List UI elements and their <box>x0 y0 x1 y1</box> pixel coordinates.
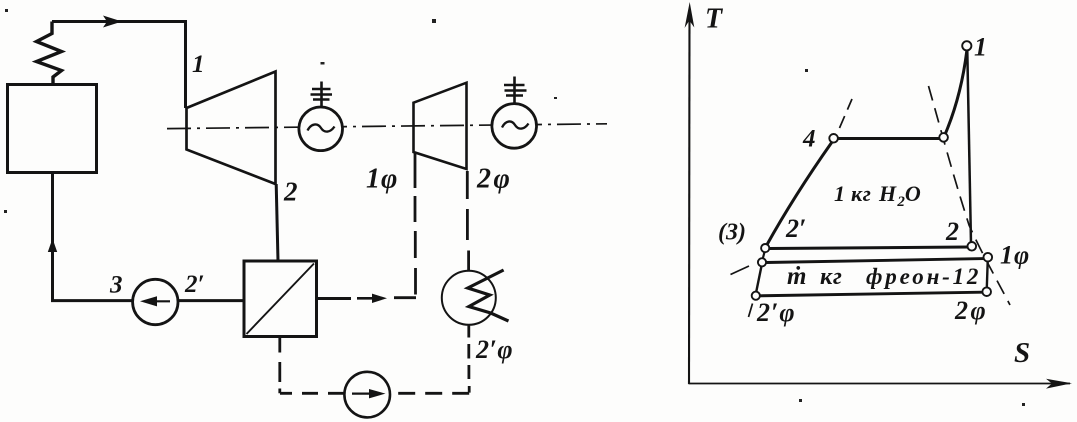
freon cycle bottom line <box>760 292 983 296</box>
G1 antenna <box>311 82 333 108</box>
svg-text:1φ: 1φ <box>1000 241 1030 270</box>
point x=1 on top line <box>939 133 948 142</box>
svg-text:1: 1 <box>974 33 987 62</box>
svg-text:1φ: 1φ <box>366 164 398 195</box>
svg-text:1кгH2O: 1кгH2O <box>834 181 921 210</box>
freon cycle left edge <box>756 266 761 292</box>
point freon left top <box>758 258 766 266</box>
freon exhaust T2 to condenser (dashed) <box>467 171 468 271</box>
condensate line HX to pump 3 <box>178 299 244 302</box>
generator G2 <box>492 104 537 149</box>
point 2 <box>968 242 977 251</box>
svg-text:2: 2 <box>945 217 959 246</box>
svg-text:2′φ: 2′φ <box>475 335 513 364</box>
svg-text:S: S <box>1014 337 1030 369</box>
steam line to turbine <box>52 22 186 109</box>
turbine T1 <box>187 72 276 185</box>
point 1ф <box>984 253 993 262</box>
freon pump P2 <box>344 372 390 418</box>
freon cycle top line <box>766 259 984 263</box>
svg-text:(3): (3) <box>718 220 746 246</box>
G2 antenna <box>504 77 527 104</box>
svg-text:2: 2 <box>283 177 298 207</box>
superheat curve to 1 <box>945 51 967 135</box>
point 4 <box>829 134 838 143</box>
water cycle: 4 -> saturation top line <box>838 137 940 140</box>
svg-text:4: 4 <box>802 126 816 153</box>
water cycle: 4 -> 2' left line <box>767 142 833 246</box>
svg-text:2φ: 2φ <box>954 296 988 325</box>
feed line pump3 to boiler <box>53 173 133 301</box>
turbine T2 (freon) <box>414 83 467 169</box>
svg-text:T: T <box>705 4 724 35</box>
dashed tick below 2'ф <box>749 304 753 318</box>
cooling zigzag through condenser <box>468 270 509 321</box>
flow arrow right on steam line <box>103 16 122 28</box>
condenser outlet dashed down <box>467 326 470 393</box>
dashed saturation line lower-left <box>731 266 750 275</box>
dashed saturation line above point 4 <box>840 99 853 128</box>
condenser K <box>442 271 496 325</box>
bottom freon return dashed line <box>391 392 470 395</box>
HX bottom dashed drop <box>278 337 281 394</box>
T axis <box>688 10 691 384</box>
generator G1 <box>299 107 343 151</box>
svg-text:2′: 2′ <box>184 271 205 298</box>
svg-text:3: 3 <box>109 272 123 299</box>
svg-text:2′φ: 2′φ <box>756 298 796 327</box>
shaft axis (dash-dot) <box>167 124 607 129</box>
expansion line 1 -> 2 <box>967 51 971 244</box>
freon cycle right edge <box>986 262 989 289</box>
svg-text:2φ: 2φ <box>476 164 512 195</box>
pump P3 <box>133 279 178 324</box>
freon line HX to T2 (dashed, with arrow) <box>317 297 352 300</box>
water cycle bottom line 2' -> 2 <box>769 247 969 249</box>
up arrow on feed line <box>48 239 57 253</box>
heat exchanger HX (square with diagonal) <box>244 261 317 337</box>
S axis <box>689 383 1071 385</box>
turbine exhaust pipe <box>276 184 278 261</box>
point 2' <box>761 244 769 252</box>
dashed vapor saturation line (right) <box>929 86 1011 305</box>
svg-text:2′: 2′ <box>785 214 806 243</box>
heater coil (zigzag) <box>37 22 62 85</box>
boiler B1 <box>8 85 97 173</box>
link 2' to freon top-left <box>763 252 765 259</box>
point 2ф <box>982 287 991 296</box>
svg-text:1: 1 <box>192 51 205 78</box>
svg-text:ṁкгфреон-12: ṁкгфреон-12 <box>787 263 981 290</box>
point 2'ф <box>752 292 760 300</box>
point 1 <box>962 41 971 50</box>
